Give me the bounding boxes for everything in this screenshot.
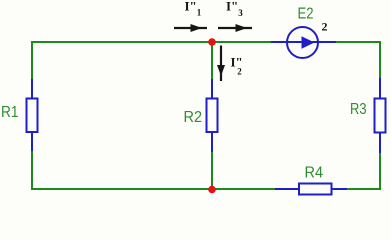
resistor R2 xyxy=(207,79,218,152)
current arrow I"2 xyxy=(217,46,225,82)
wire middle vertical upper xyxy=(211,42,213,79)
svg-text:R1: R1 xyxy=(1,104,19,121)
wire top horizontal right segment xyxy=(336,41,381,43)
svg-text:R3: R3 xyxy=(350,101,367,118)
node junction bottom (red dot) xyxy=(208,186,216,194)
wire left vertical lower xyxy=(31,151,33,190)
svg-text:R4: R4 xyxy=(305,165,324,182)
svg-text:R2: R2 xyxy=(184,109,203,126)
wire bottom horizontal left segment xyxy=(31,188,275,190)
current arrow I"1 xyxy=(174,24,207,32)
wire right vertical upper xyxy=(379,41,381,78)
wire bottom horizontal right segment xyxy=(347,188,381,190)
current source E2 xyxy=(271,27,336,58)
node junction top (red dot) xyxy=(208,38,216,46)
wire left vertical upper xyxy=(31,41,33,79)
resistor R1 xyxy=(27,79,38,151)
wire right vertical lower xyxy=(379,153,381,190)
svg-text:E2: E2 xyxy=(298,5,314,22)
resistor R3 xyxy=(375,78,386,153)
current arrow I"3 xyxy=(218,24,252,32)
resistor R4 xyxy=(275,184,347,195)
wire top horizontal left segment xyxy=(31,41,271,43)
svg-text:2: 2 xyxy=(322,20,328,34)
wire middle vertical lower xyxy=(211,152,213,189)
